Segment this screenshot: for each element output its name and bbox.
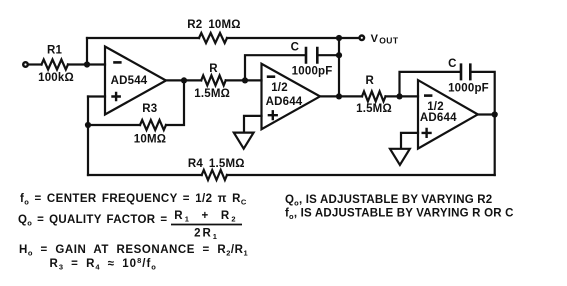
- wire U2 + input to ground: [244, 116, 262, 132]
- node: cap/Vout vertical junction: [336, 52, 342, 58]
- svg-text:C: C: [291, 41, 300, 53]
- resistor R (second integrator input): [362, 91, 386, 101]
- wire junction up to R2 line: [86, 38, 88, 65]
- op-amp U2 1/2 AD644: [262, 64, 321, 129]
- ground (U3): [390, 149, 410, 165]
- node: U1 output / R3 junction: [181, 77, 187, 83]
- wire top line left segment: [87, 37, 199, 39]
- wire R to op-amp U3 inverting input: [386, 95, 419, 97]
- wire R1 to op-amp U1 inverting input: [68, 63, 105, 65]
- svg-text:R4 1.5MΩ: R4 1.5MΩ: [188, 158, 245, 170]
- node: R3/R4 tap junction: [85, 122, 91, 128]
- U2 plus sign: [268, 110, 278, 120]
- wire R3 to U1 output: [166, 80, 184, 125]
- wire capacitor to Vout vertical: [319, 54, 339, 56]
- wire U1 + input: [88, 95, 105, 97]
- svg-text:R1: R1: [47, 45, 63, 57]
- svg-text:Ho = GAIN AT RESONANCE = R2/R1: Ho = GAIN AT RESONANCE = R2/R1: [19, 244, 248, 258]
- op-amp U1 AD544: [105, 47, 166, 115]
- node: U2- / C junction: [242, 77, 248, 83]
- wire junction to R3: [88, 124, 140, 126]
- wire U2 output to R (second): [320, 95, 362, 97]
- svg-text:Qo, IS ADJUSTABLE BY VARYING R: Qo, IS ADJUSTABLE BY VARYING R2: [285, 194, 492, 208]
- node: Vout junction: [336, 35, 342, 41]
- resistor R1: [42, 60, 69, 70]
- node: R1/R2/U1- junction: [84, 61, 90, 67]
- node: U3 output junction: [492, 111, 498, 117]
- svg-text:fo = CENTER FREQUENCY = 1/2 π: fo = CENTER FREQUENCY = 1/2 π RC: [20, 193, 247, 207]
- svg-text:AD644: AD644: [420, 112, 457, 124]
- wire U3 output down to bottom rail: [478, 115, 495, 176]
- capacitor C (U3): [461, 63, 470, 80]
- svg-text:R: R: [366, 75, 375, 87]
- svg-text:R1 + R2: R1 + R2: [174, 210, 237, 224]
- capacitor C (U2): [306, 47, 317, 64]
- wire U3 + input to ground: [401, 133, 418, 148]
- svg-text:AD644: AD644: [266, 96, 303, 108]
- resistor R4: [202, 170, 227, 180]
- wire capacitor to U3 output vertical: [472, 72, 495, 115]
- terminal Vout: [360, 36, 365, 41]
- resistor R2: [199, 33, 227, 43]
- wire bottom rail right segment: [227, 174, 495, 176]
- U3 minus sign: [424, 94, 432, 97]
- node: U3- / C junction: [396, 93, 402, 99]
- wire up to capacitor C (U3): [400, 72, 460, 97]
- wire R to op-amp U2 inverting input: [226, 79, 262, 81]
- wire up to capacitor C (U2): [245, 55, 305, 80]
- U1 plus sign: [111, 92, 121, 102]
- fraction bar: [171, 224, 242, 226]
- ground (U2): [234, 133, 254, 149]
- wire bottom rail left segment: [88, 174, 202, 176]
- wire + node vertical down to bottom rail: [87, 97, 89, 176]
- svg-text:C: C: [448, 58, 457, 70]
- U3 plus sign: [422, 128, 432, 138]
- svg-text:AD544: AD544: [111, 75, 148, 87]
- op-amp U3 1/2 AD644: [418, 80, 478, 149]
- svg-text:1.5MΩ: 1.5MΩ: [194, 88, 230, 100]
- svg-text:1000pF: 1000pF: [448, 82, 489, 94]
- svg-text:1.5MΩ: 1.5MΩ: [356, 103, 392, 115]
- wire U1 output: [166, 79, 201, 81]
- svg-text:1/2: 1/2: [271, 82, 288, 94]
- wire input to R1: [29, 63, 42, 65]
- svg-text:10MΩ: 10MΩ: [134, 134, 166, 146]
- svg-text:R2 10MΩ: R2 10MΩ: [187, 19, 240, 31]
- svg-text:R3: R3: [142, 103, 157, 115]
- resistor R3: [140, 120, 166, 130]
- svg-text:1000pF: 1000pF: [292, 65, 333, 77]
- svg-text:V: V: [371, 33, 379, 45]
- svg-text:R: R: [209, 63, 218, 75]
- svg-text:OUT: OUT: [379, 36, 399, 46]
- wire to Vout terminal: [339, 37, 358, 39]
- svg-text:fo, IS ADJUSTABLE BY VARYING R: fo, IS ADJUSTABLE BY VARYING R OR C: [285, 207, 514, 221]
- resistor R (first integrator input): [201, 75, 226, 85]
- U2 minus sign: [267, 75, 275, 78]
- wire R2 to Vout node: [227, 37, 339, 39]
- input terminal: [23, 62, 28, 67]
- node: U2 output junction: [336, 93, 342, 99]
- svg-text:Qo = QUALITY FACTOR =: Qo = QUALITY FACTOR =: [18, 214, 167, 228]
- svg-text:100kΩ: 100kΩ: [38, 72, 74, 84]
- wire Vout vertical down to U2 output: [338, 38, 340, 96]
- U1 minus sign: [113, 61, 121, 64]
